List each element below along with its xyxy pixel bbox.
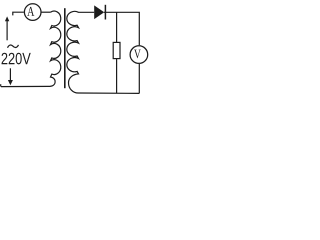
AC tilde symbol	[8, 45, 19, 48]
diode D cathode bar	[104, 5, 106, 20]
voltmeter label V	[134, 50, 141, 59]
ammeter A circle	[24, 4, 41, 21]
arrow down head	[8, 80, 13, 85]
secondary coil S (ends with bottom wire to voltmeter branch)	[67, 11, 139, 93]
diode D anode triangle	[94, 5, 104, 19]
terminal bottom-left	[0, 84, 2, 86]
arrow down (AC input)	[9, 68, 11, 80]
transformer core	[64, 8, 66, 88]
terminal top-left	[13, 12, 24, 15]
resistor R body	[113, 42, 120, 58]
resistor branch top wire	[116, 12, 118, 42]
arrow up (AC input)	[6, 21, 8, 41]
ammeter label A	[27, 7, 34, 16]
resistor branch bottom wire	[116, 59, 118, 94]
wire ammeter to primary coil	[42, 11, 51, 13]
arrow up head	[5, 16, 9, 21]
voltmeter V circle	[130, 46, 148, 64]
voltmeter branch bottom wire	[138, 64, 140, 93]
wire diode cathode to top-right corner, down to voltmeter	[104, 12, 139, 45]
primary coil P	[1, 11, 61, 87]
source value label 220V	[2, 53, 31, 65]
